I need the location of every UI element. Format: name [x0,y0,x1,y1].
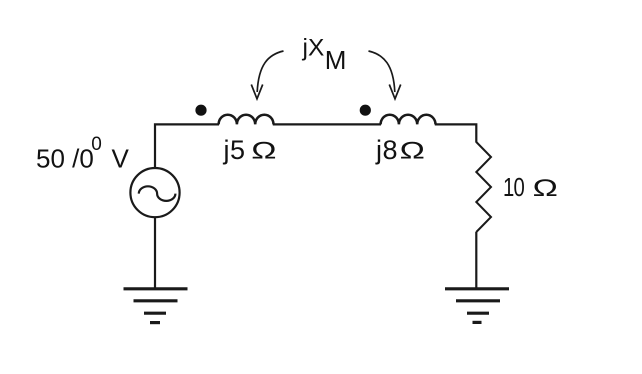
polarity dot (right, at inductor j8) [360,105,371,116]
svg-text:0: 0 [91,134,102,155]
label: jX_M mutual reactance [302,34,347,75]
svg-text:M: M [325,45,347,75]
label: 50 /0^0 V source value [36,134,130,174]
ground (left, under source) [124,289,188,323]
svg-text:50 /0: 50 /0 [36,144,94,174]
wire: top-left segment from source to first inductor [155,124,219,168]
wire: top-right segment from second inductor down to resistor [435,124,477,142]
svg-text:Ω: Ω [533,175,558,202]
label: 10 ohm [503,173,558,202]
label: j8 ohm [375,135,425,165]
polarity dot (left, at inductor j5) [195,105,206,116]
wire: from resistor bottom to right ground [475,232,477,288]
svg-text:Ω: Ω [251,137,276,164]
wire: from source bottom to left ground [154,217,156,288]
inductor j5 (3 humps) [219,115,274,125]
label: j5 ohm [223,135,277,165]
mutual coupling arrow (left curved arrow) [251,51,283,99]
ground (right, under resistor) [445,289,509,323]
svg-text:jX: jX [302,34,325,61]
inductor j8 (3 humps) [381,115,436,125]
svg-text:j8: j8 [375,135,398,165]
svg-text:V: V [112,144,130,174]
svg-text:10: 10 [503,173,525,202]
svg-text:Ω: Ω [400,137,425,164]
mutual coupling arrow (right curved arrow) [369,51,401,99]
svg-text:j5: j5 [223,135,246,165]
voltage source V1 (AC source circle with sine) [130,168,179,217]
wire: middle segment between inductors [273,123,381,125]
resistor 10 ohm (vertical zigzag) [476,142,491,232]
